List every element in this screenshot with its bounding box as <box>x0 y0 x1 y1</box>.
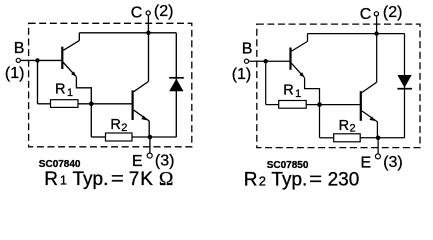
wire to R1 left <box>266 104 279 106</box>
node E junction <box>376 136 381 141</box>
svg-text:R: R <box>339 118 349 134</box>
package outline dashed box <box>29 23 192 147</box>
wire E drop <box>149 137 151 153</box>
node B junction <box>35 58 39 62</box>
svg-text:B: B <box>242 41 253 58</box>
wire R1 right to Q2 base <box>78 103 132 105</box>
resistor R1 <box>51 100 79 108</box>
wire Q2 emitter down <box>148 121 150 137</box>
terminal E <box>147 153 152 158</box>
wire B to Q1 base <box>21 59 61 61</box>
transistor Q1 <box>62 33 79 77</box>
terminal B <box>244 59 248 63</box>
node midpoint junction <box>317 102 322 107</box>
svg-text:R: R <box>283 83 293 99</box>
wire to R2 left <box>91 136 105 138</box>
svg-text:R: R <box>55 82 65 98</box>
wire node down to R2 <box>319 105 321 138</box>
wire Q2 emitter down <box>376 121 378 137</box>
wire B node down <box>265 61 267 104</box>
node E junction <box>148 135 153 140</box>
wire B node down <box>37 60 39 103</box>
transistor Q2 <box>133 33 149 121</box>
node midpoint junction <box>89 102 94 107</box>
svg-text:(2): (2) <box>383 4 403 21</box>
node C junction <box>374 31 378 35</box>
resistor R2 <box>334 134 361 142</box>
svg-text:(1): (1) <box>232 66 252 83</box>
svg-text:1: 1 <box>295 88 301 100</box>
node B junction <box>264 59 268 63</box>
svg-text:2: 2 <box>350 123 356 135</box>
wire B to Q1 base <box>249 60 289 62</box>
svg-text:E: E <box>361 154 372 171</box>
terminal C <box>374 12 378 16</box>
transistor Q2 <box>361 34 377 122</box>
svg-text:B: B <box>14 40 25 57</box>
diode D2 reversed <box>397 34 412 138</box>
diode D1 <box>169 33 184 137</box>
svg-text:C: C <box>131 5 143 22</box>
resistor R2 <box>106 133 133 141</box>
wire R1 right to Q2 base <box>306 104 360 106</box>
svg-text:(1): (1) <box>5 65 25 82</box>
wire top rail <box>79 32 176 34</box>
wire to R2 left <box>320 137 334 139</box>
wire to R1 left <box>38 103 51 105</box>
svg-text:1: 1 <box>67 87 73 99</box>
svg-text:(2): (2) <box>154 3 174 20</box>
wire R2 right to diode bottom <box>132 136 176 138</box>
transistor Q1 <box>291 34 308 78</box>
wire R2 right to diode bottom <box>360 137 404 139</box>
terminal E <box>375 154 380 159</box>
wire C drop <box>147 16 149 33</box>
node C junction <box>146 31 150 35</box>
wire Q1 emitter to node <box>76 77 91 104</box>
svg-text:2: 2 <box>121 122 127 134</box>
terminal C <box>146 11 150 15</box>
wire C drop <box>376 16 378 33</box>
wire E drop <box>377 138 379 154</box>
svg-text:C: C <box>360 6 372 23</box>
svg-text:E: E <box>132 153 143 170</box>
wire Q1 emitter to node <box>305 78 320 105</box>
svg-text:R: R <box>110 117 120 133</box>
terminal B <box>16 58 20 62</box>
svg-text:(3): (3) <box>383 154 403 171</box>
wire top rail <box>308 33 405 35</box>
package outline dashed box <box>257 24 420 148</box>
resistor R1 <box>279 101 307 109</box>
wire node down to R2 <box>90 104 92 137</box>
